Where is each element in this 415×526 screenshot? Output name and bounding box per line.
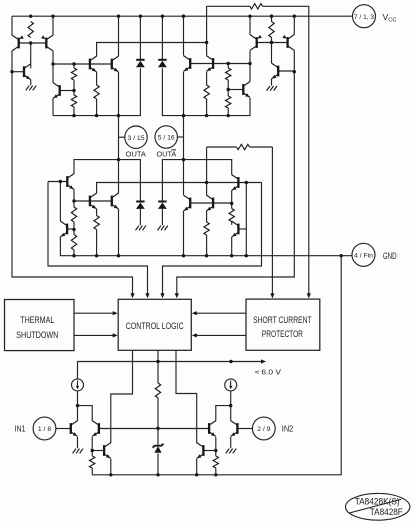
zener diode ZD1 (153, 444, 164, 453)
svg-text:CONTROL LOGIC: CONTROL LOGIC (126, 321, 184, 331)
pin circle 1/8 (IN1) (33, 417, 56, 440)
wire control logic out x176 (176, 350, 197, 443)
wire protector arrow 2 (192, 333, 246, 337)
svg-text:≈ 6.0 V: ≈ 6.0 V (255, 367, 282, 376)
transistor Q8 (206, 56, 213, 72)
block THERMAL SHUTDOWN (5, 300, 75, 351)
svg-text:2 / 9: 2 / 9 (257, 426, 270, 433)
transistor Q9 (243, 82, 250, 98)
pin circle 2/9 (IN2) (252, 417, 275, 440)
wire Q12 emitter to ground (271, 79, 273, 86)
ground G5 (73, 449, 83, 454)
resistor R13 (229, 209, 234, 222)
wire OUTAbar output rail (162, 68, 250, 115)
resistor R2 (94, 85, 99, 99)
svg-text:1 / 8: 1 / 8 (38, 426, 51, 433)
ground G3 (136, 226, 146, 231)
transistor Q2 (PNP) (41, 35, 53, 51)
wire R11 tail (96, 230, 98, 256)
wire ground rail to pin 4 (60, 237, 352, 256)
wire Q8 collector riser (206, 43, 208, 56)
transistor Q20 (232, 221, 239, 237)
wire Q9 base stub (228, 89, 243, 91)
wire Q12 collector riser (271, 43, 273, 64)
wire T5 emitter leg (110, 459, 112, 475)
svg-text:7 / 1, 3: 7 / 1, 3 (354, 14, 374, 21)
svg-text:THERMAL: THERMAL (20, 315, 54, 325)
ground G6 (226, 449, 236, 454)
wire Q8 emitter leg (206, 72, 208, 85)
pin circle 3/15 (OUTA) (125, 126, 147, 148)
wire R17 leads (91, 451, 93, 475)
wire Q7 collector to rail (183, 16, 185, 55)
transistor Q1 (PNP) (12, 35, 24, 51)
wire R3/R4 link (73, 64, 75, 116)
transistor Q5 (112, 56, 119, 72)
wire control logic out x158 (157, 350, 159, 383)
wire OUTAbar pin lead (177, 136, 183, 138)
diode D3 (136, 202, 145, 209)
wire R9 leads (73, 201, 75, 230)
resistor R16 leads (157, 398, 159, 428)
wire ground pin drop to bottom rail (92, 256, 341, 475)
wire R18 leads (215, 451, 217, 475)
pin circle 7/1,3 (Vcc) (353, 5, 376, 28)
wire Q11 collector drop to control logic (175, 50, 295, 298)
wire collector bus y182.5 (97, 183, 262, 194)
wire diode D2 anode drop (161, 16, 163, 60)
resistor R10 (71, 235, 76, 251)
wire T6 emitter leg (196, 459, 198, 475)
svg-text:IN1: IN1 (15, 424, 26, 433)
wire protector arrow 1 (192, 311, 246, 315)
transistor Q17 (184, 195, 191, 211)
wire IN2 lead (237, 428, 252, 430)
wire T1 emitter to ground (77, 437, 79, 448)
wire T2 emitter leg (91, 437, 93, 451)
svg-text:OUTA: OUTA (157, 152, 177, 159)
wire Q20 emitter leg (231, 237, 233, 256)
wire Q11 emitter to rail (293, 16, 295, 34)
wire R10 leads (73, 230, 75, 256)
transistor T4 (231, 421, 238, 437)
resistor R16 (bias) (155, 383, 160, 398)
transistor Q12 (272, 63, 279, 79)
wire CS1 to input pair (78, 391, 93, 421)
current source CS2 (225, 379, 237, 391)
wire Q15 emitter leg (96, 209, 98, 216)
diode D4 (158, 202, 167, 209)
resistor R3 (71, 68, 76, 80)
label IN1 (15, 424, 26, 433)
wire Q20 base stub (238, 228, 246, 230)
wire Q2 collector to node y64 (53, 51, 112, 64)
wire Vcc rail (12, 15, 352, 17)
label approx 6.0V (255, 367, 282, 376)
wire Q4 emitter resistor tail (96, 99, 98, 116)
wire base net y63.5 (190, 63, 250, 65)
transistor Q4 (90, 56, 97, 72)
diode D1 (136, 60, 145, 67)
svg-text:SHORT CURRENT: SHORT CURRENT (253, 315, 312, 325)
transistor T2 (92, 421, 99, 437)
wire Q3 base stub (12, 71, 24, 73)
current source CS1 (72, 379, 84, 391)
wire R12 tail (206, 235, 208, 256)
resistor R11 (94, 216, 99, 230)
wire top sense wire left (207, 6, 250, 42)
wire Q13 base wire (48, 181, 67, 183)
wire CS2 to input pair (216, 391, 231, 421)
block SHORT CURRENT PROTECTOR (246, 299, 320, 350)
wire Q10 emitter to rail (249, 16, 251, 34)
transistor T6 (197, 443, 204, 459)
svg-text:PROTECTOR: PROTECTOR (262, 329, 303, 339)
wire T3 emitter leg (215, 437, 217, 451)
wire Q8 emitter resistor tail (206, 99, 208, 116)
transistor T1 (71, 421, 78, 437)
wire Q3 collector riser (30, 43, 32, 68)
pin circle 4/Fin (GND) (352, 243, 375, 266)
wire OUTA output rail (53, 68, 140, 115)
resistor R4 (71, 95, 76, 107)
transistor Q15 (90, 193, 97, 209)
wire thermal shutdown arrow 2 (74, 333, 118, 337)
wire Q16 emitter leg (118, 209, 120, 256)
wire bias arrow 6.0V (231, 359, 266, 363)
label OUTA (126, 152, 147, 159)
svg-text:TA8428F: TA8428F (370, 507, 403, 517)
wire Q2 emitter to rail (52, 16, 54, 35)
wire Q18 node to control logic (160, 183, 261, 299)
wire OUTA pin lead (119, 136, 126, 138)
resistor R5 (204, 85, 209, 99)
wire Q19 collector riser (206, 147, 208, 195)
wire R6 top lead (227, 64, 229, 69)
wire T6 base stub (203, 450, 215, 452)
transistor Q19 (206, 195, 213, 211)
ground G2 (267, 86, 277, 91)
part label TA8428 (346, 493, 410, 520)
resistor R6 (226, 68, 231, 80)
wire Q14 collector riser (59, 182, 61, 222)
resistor R8 (269, 22, 274, 38)
wire node OUTAbar mid (y159.5 right) (162, 160, 231, 201)
wire Q4 emitter leg (96, 72, 98, 85)
wire y42.5 crossover (97, 43, 207, 57)
svg-text:GND: GND (383, 251, 397, 261)
wire input base bus (99, 428, 209, 430)
wire R8 leads (271, 16, 273, 42)
wire diode D1 anode drop (139, 16, 141, 60)
wire control logic out x132 (111, 350, 133, 443)
transistor T5 (104, 443, 111, 459)
wire diode D4 cathode drop (161, 209, 163, 225)
wire Q6 inline column (52, 64, 54, 116)
wire T4 emitter to ground (230, 437, 232, 448)
wire zener leads (157, 428, 159, 475)
wire Q3 emitter to ground (30, 80, 32, 86)
label IN2 (282, 424, 294, 433)
diode D2 (158, 60, 167, 67)
wire Q14 base stub (67, 228, 74, 230)
transistor Q14 (60, 221, 67, 237)
wire node B column x246 (245, 183, 247, 256)
svg-text:5 / 16: 5 / 16 (158, 135, 175, 142)
wire R7 tail (227, 108, 229, 116)
transistor T3 (209, 421, 216, 437)
block CONTROL LOGIC (118, 299, 191, 350)
wire top sense to short current protector (263, 6, 311, 298)
wire T5 base stub (92, 450, 104, 452)
wire diode D3 cathode drop (139, 209, 141, 225)
wire Q5 emitter / OUTA column (118, 72, 120, 193)
ground G4 (158, 226, 168, 231)
wire base net y42.5 right (257, 42, 288, 44)
transistor Q11 (PNP) (282, 35, 294, 51)
label Vcc (383, 12, 397, 24)
transistor Q7 (184, 56, 191, 72)
svg-text:CC: CC (388, 17, 396, 23)
wire base net y203 (190, 202, 232, 204)
svg-text:SHUTDOWN: SHUTDOWN (16, 330, 58, 340)
transistor Q6 (53, 83, 60, 99)
resistor R15 (top sense) (250, 4, 263, 9)
wire thermal shutdown arrow 1 (74, 311, 118, 315)
transistor Q13 (67, 174, 74, 190)
transistor Q3 (24, 64, 31, 80)
resistor R9 (71, 207, 76, 222)
transistor Q18 (232, 175, 239, 191)
pin circle 5/16 (OUTAbar) (155, 126, 177, 148)
wire base net y201 (74, 200, 112, 202)
wire Q5 collector to rail (118, 16, 120, 56)
wire Q12 base stub (278, 70, 294, 72)
resistor R18 (213, 456, 218, 468)
resistor R7 (226, 96, 231, 108)
wire sense to short current protector (270, 147, 274, 298)
wire base net A (y43) (19, 42, 47, 44)
wire left rail drop (Q1 collector to control logic) (12, 51, 135, 298)
wire Q13 emitter leg (73, 190, 75, 202)
wire R13 leads (231, 204, 233, 225)
wire R6/R7 mid (227, 80, 229, 96)
wire Q7 emitter / OUTAbar column (183, 72, 185, 195)
resistor R17 (90, 456, 95, 468)
resistor R12 (204, 222, 209, 235)
transistor Q10 (PNP) (250, 35, 262, 51)
wire Q17 emitter leg (183, 211, 185, 256)
wire sense wire y147 (207, 146, 273, 148)
wire node OUTA mid (y159.5 left) (74, 160, 140, 201)
wire IN1 lead (56, 428, 71, 430)
resistor R1 (28, 22, 33, 38)
wire Q9 collector riser (249, 51, 251, 82)
label OUTAbar (157, 150, 177, 159)
label GND (383, 251, 397, 261)
wire Q19 emitter leg (206, 211, 208, 222)
ground G1 (26, 86, 36, 91)
wire Q6 base stub (60, 90, 74, 92)
wire Q18 emitter leg (231, 190, 233, 203)
svg-text:OUTA: OUTA (126, 152, 147, 159)
svg-text:3 / 15: 3 / 15 (127, 135, 144, 142)
wire Q13 node to control logic (48, 182, 150, 299)
resistor R14 (sense) (237, 144, 250, 149)
svg-text:4 / Fin: 4 / Fin (354, 252, 373, 259)
wire Q1 emitter to rail (11, 16, 13, 35)
svg-text:IN2: IN2 (282, 424, 294, 433)
transistor Q16 (112, 193, 119, 209)
wire bias rail y361.5 (78, 362, 232, 379)
